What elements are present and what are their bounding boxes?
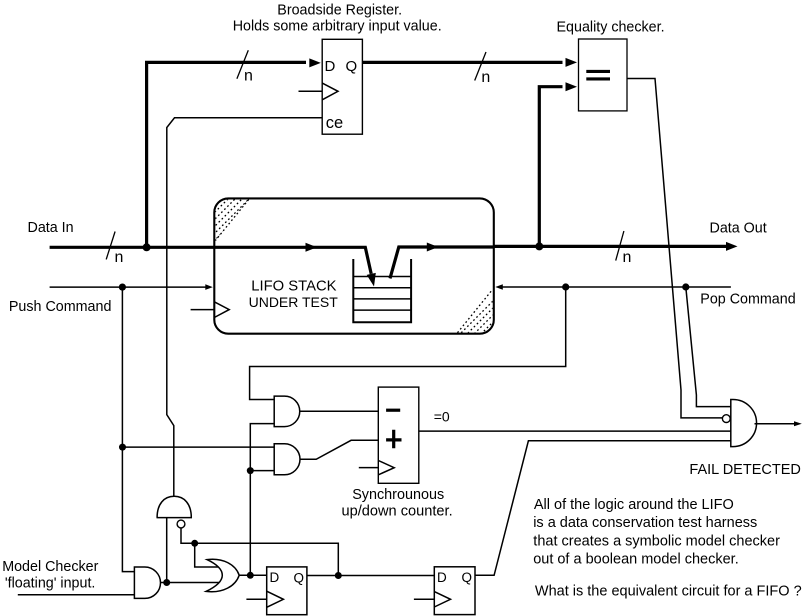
wire: chain up to A1 lower input	[250, 424, 274, 471]
label: Push Command	[9, 299, 112, 315]
junction: N1 bubble net branch	[191, 540, 198, 547]
AND gate A4 (FAIL DETECTED output gate)	[731, 400, 757, 447]
wire: chain up to AND input branches	[249, 471, 251, 576]
label: =0	[434, 409, 450, 425]
counter U3 plus symbol	[386, 430, 401, 449]
svg-text:ce: ce	[326, 114, 343, 132]
wire: pop branch down to FAIL gate input	[686, 287, 731, 407]
DFF2 clock chevron	[434, 592, 450, 607]
wire: push branch to count-down AND input	[123, 446, 275, 448]
svg-text:Equality checker.: Equality checker.	[557, 20, 665, 36]
wire: N1 bubble down to junction	[181, 528, 195, 543]
wire: A1 output to counter minus input	[300, 410, 379, 412]
wire: register Q output to equality checker input A	[362, 58, 577, 67]
svg-text:Model Checker: Model Checker	[2, 559, 98, 575]
wire: bus tap up to Broadside Register D input	[147, 58, 321, 247]
wire: branch right and down to DFF net	[195, 543, 339, 575]
wire: Push Command	[50, 284, 213, 290]
register U1 clock chevron	[322, 83, 338, 100]
register U1: Broadside Register box	[322, 39, 362, 134]
DFF2 pin label D	[437, 570, 447, 585]
wire: Data In bus	[50, 246, 215, 249]
wire: bus tap up to equality checker input B	[539, 82, 577, 246]
AND gate A3 (model checker)	[134, 567, 160, 598]
wire: ce net from NAND output up to register ce	[167, 118, 322, 497]
wire: branch right to A2 lower input	[250, 470, 274, 472]
junction: DFF net / N1 branch	[335, 572, 342, 579]
label: Data Out	[710, 221, 767, 237]
svg-text:Q: Q	[346, 58, 358, 75]
svg-text:Q: Q	[462, 570, 473, 585]
flip-flop DFF1 box	[267, 567, 307, 615]
svg-text:FAIL DETECTED: FAIL DETECTED	[689, 462, 800, 478]
svg-text:Pop Command: Pop Command	[700, 291, 795, 307]
wire: floating input to A3	[18, 594, 135, 596]
equality checker U2 box	[579, 39, 628, 111]
svg-text:n: n	[623, 249, 632, 266]
svg-text:Holds some arbitrary input val: Holds some arbitrary input value.	[233, 19, 442, 35]
LIFO stack box	[214, 198, 494, 333]
label: Model Checker 'floating' input	[2, 559, 98, 591]
AND gate A2 (count down)	[274, 444, 300, 475]
LIFO hatched corner bottom-right	[446, 291, 516, 363]
wire: A4 output with arrow	[755, 421, 802, 426]
LIFO clock chevron	[214, 302, 229, 318]
label: Equality checker title	[557, 20, 665, 36]
junction: push command branch	[119, 284, 126, 291]
svg-text:UNDER TEST: UNDER TEST	[249, 294, 339, 310]
register U1 pin label ce	[326, 114, 343, 132]
junction: push to count-down AND branch	[119, 444, 126, 451]
wire: data path out of stack through LIFO (pop)	[390, 243, 494, 279]
label: LIFO STACK UNDER TEST	[249, 278, 339, 310]
NAND gate N1 inverted input bubble	[177, 520, 185, 528]
DFF1 pin label Q	[294, 571, 305, 586]
svg-text:that creates a symbolic model: that creates a symbolic model checker	[533, 533, 780, 549]
counter U3 clock chevron	[378, 461, 394, 475]
svg-text:=0: =0	[434, 409, 450, 425]
LIFO internal stack symbol	[353, 259, 411, 322]
svg-text:n: n	[481, 69, 490, 86]
svg-text:Data In: Data In	[28, 220, 74, 236]
svg-text:up/down counter.: up/down counter.	[342, 504, 453, 520]
OR gate O1	[206, 559, 239, 591]
wire: counter =0 output to FAIL gate	[419, 430, 731, 432]
svg-text:is a data conservation test ha: is a data conservation test harness	[533, 515, 757, 531]
wire: data path through LIFO into stack (push)	[214, 243, 375, 287]
svg-text:n: n	[115, 249, 124, 266]
bus width marker /n at register output	[475, 52, 491, 86]
svg-text:D: D	[270, 570, 280, 585]
label: explanation paragraph	[533, 497, 801, 600]
junction: branch to A2 lower input	[247, 467, 254, 474]
DFF1 pin label D	[270, 570, 280, 585]
label: Pop Command	[700, 291, 795, 307]
junction: pop to FAIL gate branch	[682, 283, 689, 290]
LIFO hatched corner top-left	[196, 180, 258, 242]
svg-text:LIFO STACK: LIFO STACK	[251, 278, 336, 294]
svg-text:'floating' input.: 'floating' input.	[5, 575, 96, 591]
bus width marker /n at Data In	[106, 232, 123, 267]
wire: equality checker output to FAIL gate inverted input	[627, 79, 723, 418]
junction: A3 output to N1 branch	[163, 579, 170, 586]
wire: DFF1 clock stub	[246, 598, 266, 600]
label: Broadside Register title	[233, 3, 442, 35]
wire: Pop Command	[495, 284, 731, 290]
junction: Data In to register tap	[143, 243, 151, 251]
A4 inverted input bubble	[722, 415, 730, 423]
wire: push down to model-checker AND input	[122, 287, 134, 571]
label: FAIL DETECTED	[689, 462, 800, 478]
wire: O1 output to DFF1 D input	[239, 574, 267, 576]
counter U3: synchronous up/down counter box	[378, 387, 419, 483]
flip-flop DFF2 box	[434, 567, 475, 615]
wire: DFF2 Q up to FAIL gate input	[475, 441, 731, 576]
NAND gate N1 (pointing up, output to ce)	[157, 496, 193, 517]
AND gate A1 (count up)	[274, 396, 300, 427]
wire: register clock stub	[299, 90, 323, 92]
register U1 pin label D	[325, 58, 336, 75]
equality checker U2 equals symbol	[586, 71, 610, 79]
svg-text:D: D	[325, 58, 336, 75]
svg-text:What is the equivalent circuit: What is the equivalent circuit for a FIF…	[535, 584, 802, 600]
wire: pop branch to count-up AND input	[250, 287, 566, 400]
svg-text:Q: Q	[294, 571, 305, 586]
bus width marker /n at register input	[237, 50, 253, 84]
svg-text:Push Command: Push Command	[9, 299, 112, 315]
wire: model AND output up into N1 input	[166, 518, 168, 583]
svg-text:Synchrounous: Synchrounous	[352, 487, 444, 503]
svg-text:Broadside Register.: Broadside Register.	[277, 3, 402, 19]
svg-text:Data Out: Data Out	[710, 221, 767, 237]
wire: A3 output to OR gate lower input	[160, 582, 219, 584]
wire: counter clock stub	[359, 467, 379, 469]
DFF2 pin label Q	[462, 570, 473, 585]
svg-text:n: n	[244, 68, 253, 85]
register U1 pin label Q	[346, 58, 358, 75]
counter U3 minus symbol	[386, 409, 400, 412]
svg-text:D: D	[437, 570, 447, 585]
label: Data In	[28, 220, 74, 236]
svg-text:All of the logic around the LI: All of the logic around the LIFO	[534, 497, 734, 513]
junction: OR output net / AND input chain	[247, 572, 254, 579]
wire: DFF1 Q to DFF2 D	[307, 575, 434, 577]
junction: Data Out to equality tap	[535, 242, 543, 250]
junction: pop to count-up branch	[562, 283, 569, 290]
svg-text:out of a boolean model checker: out of a boolean model checker.	[533, 552, 739, 568]
wire: Data Out bus	[494, 242, 738, 251]
bus width marker /n at Data Out	[616, 231, 632, 266]
DFF1 clock chevron	[267, 591, 284, 607]
wire: A2 output to counter plus input	[300, 440, 379, 459]
wire: LIFO clock stub	[191, 309, 215, 311]
wire: branch down to OR gate upper input	[195, 543, 218, 567]
label: Synchrounous up/down counter	[342, 487, 453, 519]
wire: DFF2 clock stub	[414, 598, 434, 600]
